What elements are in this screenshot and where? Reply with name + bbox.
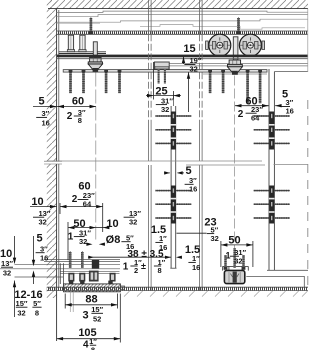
wall hatched section (left) (47, 0, 57, 298)
svg-text:32: 32 (211, 234, 219, 243)
svg-text:16: 16 (159, 243, 167, 252)
bottom-right lower line (246, 276, 304, 287)
dim 50 right line (221, 244, 253, 246)
ceiling construction line 1 (57, 11, 308, 12)
svg-text:1: 1 (123, 261, 129, 272)
svg-text:60: 60 (72, 96, 84, 108)
svg-text:8: 8 (91, 346, 95, 350)
arrow dim10 L (50, 205, 57, 208)
hanger bolt (left door) (88, 42, 102, 72)
wall face line (56, 9, 58, 341)
dim 60 right line (235, 105, 269, 107)
bottom bracket block 3 (110, 273, 116, 282)
dim 5 right line (262, 105, 269, 107)
door 1 top profile (sectioned, grey) (154, 62, 169, 83)
svg-text:10: 10 (31, 196, 43, 208)
svg-text:3″: 3″ (40, 244, 48, 253)
bottom profile left end (60, 263, 63, 284)
arrows dia8 (86, 243, 92, 246)
dim 5 vertical line B (33, 236, 35, 260)
svg-text:15″: 15″ (16, 299, 28, 308)
right edge upper solid (307, 9, 309, 72)
arrow dim5 TL (50, 105, 57, 108)
svg-text:2: 2 (238, 109, 244, 120)
svg-text:±: ± (141, 261, 146, 271)
svg-text:88: 88 (85, 294, 97, 306)
dim 10/12-16 vertical line A (14, 236, 16, 259)
dim 10 left line (30, 206, 57, 208)
arrows dim38 (88, 256, 94, 259)
track bottom thick flange (57, 55, 308, 58)
arrows dim88 (65, 303, 72, 306)
carriage hanger body (228, 37, 243, 75)
wall bracket upright 2 (79, 35, 86, 52)
dim 60 mid line (60, 206, 103, 208)
svg-text:32: 32 (161, 105, 169, 114)
svg-text:32: 32 (17, 308, 25, 317)
dim 23 line (177, 232, 207, 234)
floor guide block (224, 270, 244, 283)
horizontal break line upper (47, 160, 262, 162)
svg-text:2: 2 (67, 111, 73, 122)
dim 15 vertical line (183, 57, 185, 64)
svg-text:52: 52 (93, 315, 101, 324)
ceiling construction line 4 (57, 23, 305, 29)
arrows dim5 rail (164, 171, 170, 174)
svg-text:4: 4 (83, 339, 89, 350)
arrows dim15 (182, 57, 185, 64)
dim 88 ext lines (64, 294, 66, 309)
svg-text:50: 50 (228, 235, 240, 247)
ceiling construction line 2 (57, 15, 308, 17)
arrows dim25 (147, 94, 154, 97)
arrows bottom-left verticals (13, 258, 16, 265)
svg-text:16: 16 (40, 254, 48, 263)
right break edge dashed (307, 100, 309, 287)
bottom bracket block 2 (79, 273, 85, 282)
svg-text:8: 8 (78, 116, 82, 125)
arrows dim105 (57, 337, 64, 340)
svg-text:Ø8: Ø8 (106, 234, 121, 246)
bottom centre guide block (89, 271, 99, 282)
bottom guide pin (left door) (92, 260, 99, 269)
svg-text:32: 32 (79, 237, 87, 246)
fascia board line (58, 10, 60, 287)
dim 25 line (146, 95, 181, 97)
svg-text:16: 16 (286, 107, 294, 116)
floor guide screws (224, 255, 246, 270)
arrow dim5 R (275, 104, 282, 107)
svg-text:32: 32 (3, 268, 11, 277)
dim 105 line (57, 338, 121, 340)
left door axis line (95, 73, 97, 242)
door leaf lines below profile (69, 292, 71, 312)
track lower line (57, 58, 308, 60)
arrowheads (13, 57, 282, 341)
fascia return line 2 (169, 65, 308, 67)
roller carriage wheel 2 (239, 34, 264, 56)
arrows dim60 TL (58, 105, 65, 108)
bottom-right door outline (223, 266, 249, 270)
dim 88 line (65, 304, 117, 306)
bottom profile fixing screw 2 (upward) (81, 251, 84, 268)
arrows dim60 R (235, 104, 242, 107)
svg-text:3″: 3″ (42, 109, 50, 118)
roller carriage wheel 1 (206, 34, 231, 56)
fascia screws row (hanging) (69, 70, 262, 103)
dim 5/60 top-left line (33, 106, 96, 108)
svg-text:32: 32 (190, 64, 198, 73)
bottom aluminium profile (hatched section) (64, 281, 121, 292)
track fixing screw (right, into ceiling) (236, 17, 240, 34)
ceiling construction line 3 (57, 19, 308, 22)
dim 50 left ext line (67, 222, 69, 260)
arrows dim60 M (60, 205, 67, 208)
fascia return line 1 (169, 62, 308, 64)
svg-text:16: 16 (189, 185, 197, 194)
dim 5 mid-rail leader (178, 172, 185, 174)
arrows dim50 R (221, 243, 228, 246)
dim 50 left line (68, 227, 96, 229)
svg-text:16: 16 (192, 263, 200, 272)
arrow dim10 M (103, 226, 110, 229)
svg-text:15: 15 (183, 43, 195, 55)
svg-text:5: 5 (38, 96, 44, 108)
dim 38 line (88, 256, 171, 258)
dim 10 mid line (96, 227, 103, 229)
svg-text:64: 64 (251, 113, 260, 122)
svg-text:3: 3 (82, 310, 88, 322)
arrows dim1.5 mid (176, 256, 182, 259)
dim 25 ext lines (153, 62, 155, 100)
middle glass rail (170, 94, 176, 268)
svg-text:1: 1 (68, 231, 74, 242)
svg-text:32: 32 (129, 217, 137, 226)
lower fixing profile bar (63, 70, 308, 74)
svg-text:13″: 13″ (1, 259, 13, 268)
middle rail screw sets (155, 112, 191, 224)
wall band break marks (44, 161, 62, 164)
svg-text:5: 5 (36, 233, 42, 245)
svg-text:16: 16 (42, 118, 50, 127)
dim 105 ext line (119, 294, 121, 343)
floor hatch ticks (124, 291, 308, 297)
svg-text:32: 32 (39, 218, 47, 227)
svg-text:2: 2 (134, 266, 138, 275)
arrows dim50 L (68, 226, 75, 229)
svg-text:5″: 5″ (33, 299, 41, 308)
bottom-right line to right edge (267, 269, 308, 271)
svg-text:8: 8 (35, 308, 39, 317)
svg-text:2: 2 (72, 194, 78, 205)
door panel 2 centre pair (200, 0, 203, 291)
svg-text:1: 1 (225, 251, 230, 261)
bracket base plate (59, 52, 107, 54)
svg-text:10: 10 (106, 218, 118, 230)
right rail screw sets (254, 112, 290, 224)
ceiling hatched section (top) (50, 0, 308, 9)
dim 50 right ext lines (220, 241, 222, 267)
profile end piece (121, 286, 125, 289)
bottom profile fixing screw 1 (upward) (69, 251, 72, 268)
svg-text:32: 32 (234, 256, 242, 265)
floor serrated band (47, 287, 308, 290)
door panel 1 centre pair (149, 0, 152, 291)
right glass rail (269, 69, 274, 270)
svg-text:64: 64 (83, 200, 92, 209)
bottom profile upper lines (0, 260, 120, 277)
svg-text:8: 8 (158, 266, 162, 275)
bottom bracket block 1 (68, 273, 74, 282)
ceiling soffit line (48, 8, 308, 10)
track fixing screw (left, into ceiling) (89, 17, 93, 34)
label 1 1/2 +- 1/8 (123, 258, 166, 275)
track mounting serrated band (57, 31, 308, 34)
dim 60 mid ext lines (59, 203, 61, 214)
carriage bolt axis line (234, 76, 236, 258)
svg-text:15″: 15″ (91, 305, 103, 314)
horizontal break line lower (186, 164, 265, 166)
wall bracket upright 1 (67, 35, 74, 52)
floor guide centre pin screw (233, 248, 235, 268)
